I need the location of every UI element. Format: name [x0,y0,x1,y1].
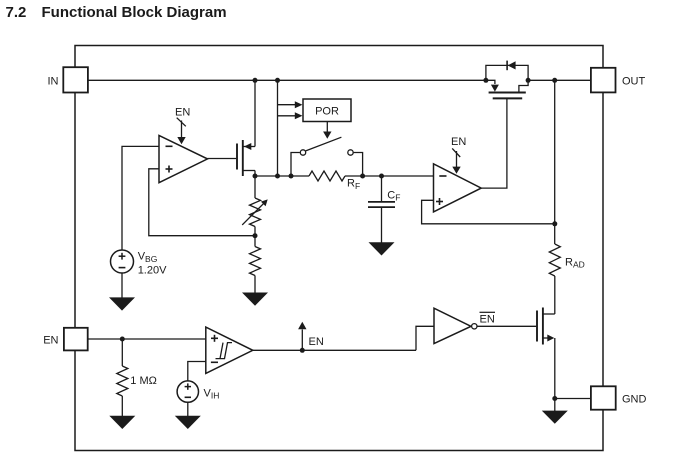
svg-text:RF: RF [347,178,360,191]
wire U1 output to Q1 gate [208,158,237,160]
heading 7.2 Functional Block Diagram [6,4,227,21]
wire feedback rail RF/CF (Q1 source to op-amp U2 inverting input) [255,175,309,177]
svg-text:VBG: VBG [138,251,158,264]
transistor Q1 (NMOS follower) [237,140,255,176]
svg-text:EN: EN [309,336,324,348]
U1 EN gating arrow and label [175,107,190,145]
svg-text:EN: EN [480,313,495,325]
wire OUT node vertical (OUT to RAD / GND node) [554,80,556,244]
svg-text:Functional Block Diagram: Functional Block Diagram [42,4,227,21]
U2 EN gating arrow and label [451,136,466,174]
ground (VIH) [175,416,201,429]
wire 1Mohm pulldown top [121,339,123,366]
svg-text:OUT: OUT [622,76,646,88]
wire U4 output ENbar to Q3 gate [477,325,536,327]
wire VBG source to ground [121,273,123,298]
POR block [295,99,351,122]
ground (CF) [369,242,395,255]
pin GND [591,386,647,409]
ground (divider) [242,293,268,306]
wire node IN-to-Q1 drop [254,80,256,146]
transistor Q3 (NMOS discharge) [537,308,555,345]
ground (1 Mohm) [109,416,135,429]
POR output arrow to switch [323,122,331,139]
svg-text:1 MΩ: 1 MΩ [130,375,157,387]
wire U2 non-inverting input from RAD node [422,200,555,224]
resistor divider lower leg [250,247,261,276]
transistor Q2 (PMOS pass element) [486,80,528,98]
wire U3 output (EN net) [253,349,416,351]
wire EN pin to comparator U3 [88,338,206,340]
wire U3 inverting input from VIH [188,362,206,382]
wire PMOS drain to OUT pin [528,79,591,81]
comparator U3 with hysteresis [206,327,253,373]
wire divider mid node [254,227,256,247]
wire CF bottom to ground [381,207,383,242]
wire divider bottom to ground [254,276,256,293]
wire POR upper input branch [278,104,297,106]
svg-text:POR: POR [315,106,339,118]
wire switch right leg [354,153,363,177]
variable resistor (adjustable feedback) [242,198,268,227]
pin OUT [591,68,646,93]
capacitor CF [368,189,400,207]
wire 1Mohm bottom to ground [121,396,123,416]
wire POR feed vertical [277,80,279,176]
wire IN rail (IN pin to PMOS source) [88,79,486,81]
svg-text:RAD: RAD [565,256,585,269]
svg-text:VIH: VIH [204,387,220,400]
voltage source VIH [177,381,219,402]
svg-text:EN: EN [451,136,466,148]
pin IN [48,67,88,92]
svg-text:1.20V: 1.20V [138,265,167,277]
resistor RAD [549,244,584,276]
wire GND node to ground symbol [554,399,556,412]
wire Q3 source to GND node [554,338,556,399]
IC boundary rectangle [75,46,603,451]
svg-text:7.2: 7.2 [6,4,27,21]
op-amp U2 (gate driver) [434,164,482,212]
resistor RF [309,171,360,191]
ground (VBG) [109,297,135,310]
wire U2 output to Q2 gate [481,99,507,188]
switch S1 (RF bypass) [300,137,353,155]
voltage source VBG 1.20V [111,250,168,277]
wire error amp U1 inverting input [122,146,159,250]
svg-text:CF: CF [387,189,400,202]
wire POR lower input branch [278,115,297,117]
op-amp U1 error amplifier [159,135,208,182]
wire error amp U1 non-inverting input [149,169,255,236]
wire VIH bottom to ground [187,402,189,416]
svg-text:IN: IN [48,75,59,87]
wire GND node to GND pin [555,398,591,400]
svg-text:EN: EN [175,107,190,119]
resistor 1 Mohm pulldown [117,366,157,396]
svg-text:GND: GND [622,394,647,406]
pin EN [43,328,87,351]
inverter U4 [434,308,495,343]
EN net up-arrow and label [298,322,324,351]
wire EN net riser to inverter U4 [416,326,434,350]
wire RAD bottom to Q3 drain [554,276,556,314]
wire switch left leg [291,153,300,177]
wire CF top [381,176,383,202]
svg-text:EN: EN [43,335,58,347]
body diode D1 of Q2 [486,61,528,81]
wire Q1 source to divider [254,176,256,198]
ground (GND pin node) [542,411,568,424]
